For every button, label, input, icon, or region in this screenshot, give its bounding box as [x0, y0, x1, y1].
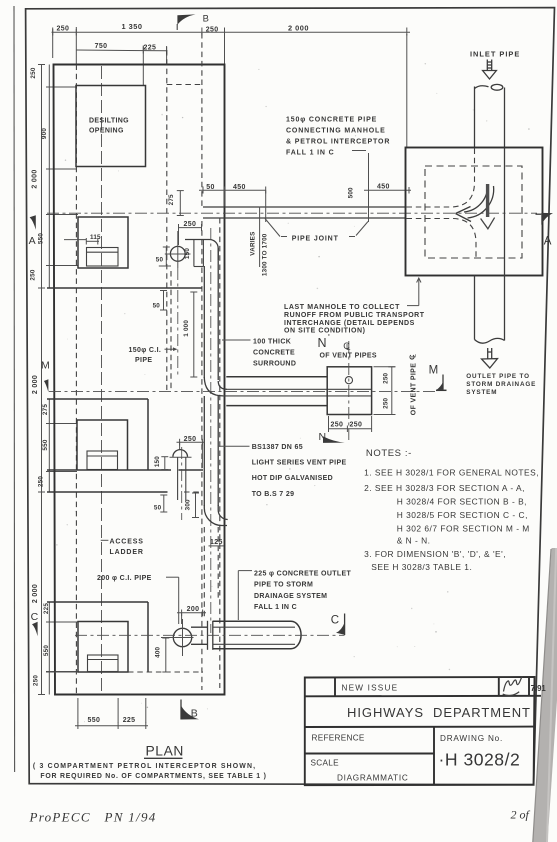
svg-text:ON SITE CONDITION): ON SITE CONDITION): [284, 328, 365, 335]
svg-text:DRAINAGE SYSTEM: DRAINAGE SYSTEM: [254, 593, 327, 600]
outlet pipe note: [466, 373, 536, 396]
plan caption: [33, 763, 267, 780]
svg-text:LADDER: LADDER: [110, 549, 144, 556]
duct dashed continuation below elbow: [204, 527, 218, 618]
opening compartment 2: [77, 420, 128, 470]
svg-text:250: 250: [38, 476, 45, 487]
svg-text:FOR REQUIRED No. OF COMPARTMEN: FOR REQUIRED No. OF COMPARTMENTS, SEE TA…: [40, 773, 266, 780]
svg-text:250: 250: [331, 421, 344, 428]
section flag A left: [29, 215, 36, 247]
svg-text:550: 550: [42, 439, 49, 450]
dip fitting crosshair: [165, 253, 191, 255]
scan speckle: [56, 63, 529, 722]
hidden dash x171: [170, 271, 172, 390]
150 dia CI pipe label: [129, 347, 178, 364]
vent pipe vertical run left line: [203, 266, 205, 506]
dim 250/250 below surround: [329, 416, 372, 432]
compartment 2 top wall y399: [47, 398, 148, 400]
dashed lintel y84.5: [167, 84, 202, 86]
svg-text:900: 900: [41, 128, 48, 139]
dim 250/250 right of surround: [374, 367, 396, 415]
svg-text:250: 250: [184, 221, 197, 228]
manhole outlet channel right line: [504, 148, 506, 276]
page left edge line: [13, 6, 16, 772]
concrete surround box: [327, 367, 371, 415]
svg-text:2 of: 2 of: [511, 808, 531, 822]
svg-text:SURROUND: SURROUND: [253, 360, 296, 367]
hidden wall edge dashed x76: [75, 65, 77, 695]
pipe joint label: [265, 219, 368, 243]
top dimension line 250 / 1350 / 250 / 2000: [52, 27, 411, 36]
svg-text:OPENING: OPENING: [89, 128, 124, 135]
top dim extension lines: [53, 29, 407, 148]
dim 150 left of dome: [161, 457, 168, 470]
N flag bottom: [319, 431, 345, 443]
outlet sump circle: [173, 628, 191, 646]
compartment 2 side wall x148: [147, 399, 149, 470]
dim 275 wall: [177, 191, 184, 216]
200 dia CI pipe label: [97, 575, 179, 624]
compartment 3 side wall x148: [147, 602, 149, 672]
vent pipe centreline chain x210.5: [210, 228, 212, 633]
svg-text:LIGHT SERIES VENT PIPE: LIGHT SERIES VENT PIPE: [252, 459, 347, 466]
fall leader from note: [352, 150, 366, 152]
svg-text:CONCRETE: CONCRETE: [253, 349, 295, 356]
svg-text:OUTLET PIPE TO: OUTLET PIPE TO: [466, 373, 530, 380]
svg-text:( 3 COMPARTMENT PETROL INTERCE: ( 3 COMPARTMENT PETROL INTERCEPTOR SHOWN…: [33, 763, 256, 770]
bench compartment 2: [87, 451, 118, 470]
svg-text:B: B: [203, 13, 210, 24]
svg-text:NEW ISSUE: NEW ISSUE: [342, 684, 399, 693]
section line N-N chain: [348, 341, 350, 440]
svg-text:PIPE: PIPE: [135, 357, 152, 364]
svg-text:DESILTING: DESILTING: [89, 118, 129, 125]
svg-text:STORM DRAINAGE: STORM DRAINAGE: [466, 381, 536, 388]
svg-text:550: 550: [38, 233, 45, 244]
section flag A right: [536, 213, 554, 248]
manhole outlet pipe below: [475, 276, 505, 344]
section flag C left: [31, 611, 39, 636]
svg-text:2. SEE H 3028/3 FOR SECTION A: 2. SEE H 3028/3 FOR SECTION A - A,: [364, 483, 525, 493]
dim 400 outlet: [162, 638, 169, 672]
compartment 3 top wall y602: [47, 601, 148, 603]
svg-text:SCALE: SCALE: [311, 758, 340, 767]
svg-text:PIPE JOINT: PIPE JOINT: [292, 236, 339, 243]
svg-text:2 000: 2 000: [288, 24, 309, 33]
hidden line dashed x166.8: [166, 50, 168, 390]
svg-text:NOTES :-: NOTES :-: [366, 448, 412, 459]
hidden line dashed x201.9 lower: [201, 221, 203, 690]
svg-text:REFERENCE: REFERENCE: [312, 734, 365, 743]
svg-text:250: 250: [57, 26, 70, 33]
svg-text:FALL 1 IN C: FALL 1 IN C: [286, 150, 335, 157]
svg-text:HOT DIP GALVANISED: HOT DIP GALVANISED: [252, 475, 333, 482]
svg-text:550: 550: [88, 717, 101, 724]
svg-text:1. SEE H 3028/1 FOR GENERAL NO: 1. SEE H 3028/1 FOR GENERAL NOTES,: [364, 467, 539, 477]
svg-text:250: 250: [382, 397, 389, 408]
svg-text:225: 225: [43, 603, 50, 614]
bench compartment 3: [88, 655, 119, 672]
dim 50 / 450 near interceptor: [199, 187, 266, 223]
svg-text:450: 450: [233, 184, 246, 191]
bottom dim 550 / 225: [75, 698, 148, 729]
svg-text:250: 250: [206, 26, 219, 33]
svg-text:125: 125: [210, 539, 223, 546]
pipe joint tick 1: [259, 207, 261, 268]
vent branch pipe horizontal pair: [227, 388, 372, 390]
interceptor outer wall: [54, 65, 225, 695]
svg-text:H 3028/4 FOR SECTION B - B,: H 3028/4 FOR SECTION B - B,: [397, 497, 527, 507]
svg-text:550: 550: [43, 645, 50, 656]
pipe joint tick 2 / fall leader: [368, 153, 370, 222]
inlet pipe cylinder: [475, 84, 505, 147]
title block outline: [305, 677, 541, 785]
svg-text:100 THICK: 100 THICK: [253, 338, 291, 345]
svg-text:LAST MANHOLE TO COLLECT: LAST MANHOLE TO COLLECT: [284, 304, 400, 311]
svg-text:2 000: 2 000: [32, 169, 39, 188]
svg-text:50: 50: [153, 303, 161, 310]
svg-text:500: 500: [347, 187, 354, 198]
extension line y672: [46, 671, 78, 673]
svg-text:SYSTEM: SYSTEM: [466, 389, 497, 396]
svg-text:450: 450: [377, 184, 390, 191]
svg-text:7/91: 7/91: [531, 684, 547, 693]
hidden line dashed x201.9 upper: [201, 33, 203, 207]
manhole channel upper curve: [407, 149, 475, 208]
svg-text:L: L: [346, 343, 351, 352]
vent elbow bottom: [204, 505, 227, 526]
svg-text:INLET PIPE: INLET PIPE: [470, 50, 520, 59]
svg-text:250: 250: [350, 421, 363, 428]
dim 50 left of dip circle: [159, 247, 171, 266]
inlet flow arrow: [483, 60, 497, 80]
svg-text:A: A: [29, 235, 36, 247]
elbow from connecting pipe down: [185, 240, 218, 261]
svg-text:225: 225: [123, 717, 136, 724]
svg-text:VARIES: VARIES: [250, 232, 257, 256]
svg-text:DRAWING No.: DRAWING No.: [440, 734, 503, 743]
svg-text:250: 250: [30, 67, 37, 78]
svg-text:PLAN: PLAN: [146, 744, 184, 759]
svg-text:150φ C.I.: 150φ C.I.: [129, 347, 162, 354]
svg-text:225 φ CONCRETE OUTLET: 225 φ CONCRETE OUTLET: [254, 570, 352, 577]
svg-text:250: 250: [184, 436, 197, 443]
outlet sump crosshair: [161, 637, 194, 639]
svg-text:250: 250: [382, 372, 389, 383]
left outer dim line (overall 2000 chain): [38, 65, 45, 695]
access ladder label: [101, 539, 144, 556]
svg-text:C: C: [31, 611, 39, 623]
vent dome base ticks: [170, 456, 192, 458]
svg-text:150φ CONCRETE PIPE: 150φ CONCRETE PIPE: [286, 117, 377, 124]
svg-text:TO B.S 7 29: TO B.S 7 29: [252, 491, 295, 498]
bench compartment 1: [87, 248, 119, 267]
curved flow arrow in manhole: [456, 184, 494, 222]
svg-text:300: 300: [184, 499, 191, 510]
svg-text:3. FOR DIMENSION 'B', 'D', & ': 3. FOR DIMENSION 'B', 'D', & 'E',: [364, 549, 506, 559]
BS1387 vent pipe note: [218, 444, 347, 498]
svg-text:C: C: [331, 614, 339, 626]
dim 300: [192, 493, 199, 518]
svg-text:M: M: [429, 365, 439, 377]
section line C-C chain: [75, 634, 345, 636]
svg-text:250: 250: [30, 269, 37, 280]
svg-text:2 000: 2 000: [32, 375, 39, 394]
svg-text:FALL 1 IN C: FALL 1 IN C: [254, 604, 297, 611]
vent branch verticals below dome: [178, 457, 186, 500]
dim 250 above vent dome: [177, 439, 205, 468]
svg-text:OF VENT PIPES: OF VENT PIPES: [320, 353, 377, 360]
outlet pipe inner lines: [213, 627, 295, 644]
svg-text:50: 50: [154, 504, 162, 511]
svg-text:ACCESS: ACCESS: [110, 539, 144, 546]
svg-text:PIPE TO STORM: PIPE TO STORM: [254, 582, 313, 589]
section flag B bottom: [181, 700, 199, 720]
top dimension line 750 / 225: [76, 46, 167, 86]
hidden wall dashed y672: [128, 671, 203, 673]
section line A-A chain: [47, 212, 537, 214]
svg-text:275: 275: [168, 194, 175, 205]
inlet dip fitting circle compartment 1: [170, 246, 185, 261]
dim 250 drop pipe: [179, 224, 202, 245]
wall line y288: [47, 287, 202, 289]
centre line of openings x101.5: [101, 66, 103, 694]
svg-text:400: 400: [154, 646, 161, 657]
svg-text:DIAGRAMMATIC: DIAGRAMMATIC: [337, 774, 408, 783]
vent pipe dome cap: [173, 450, 188, 457]
manhole dashed inner square: [425, 166, 522, 258]
centreline symbol near N: [343, 341, 351, 352]
svg-text:225: 225: [144, 45, 157, 52]
svg-text:CONNECTING MANHOLE: CONNECTING MANHOLE: [286, 128, 386, 135]
section flag M left: [41, 360, 50, 393]
dip centreline dashed below circle: [177, 268, 179, 378]
manhole channel lower curve: [407, 219, 477, 258]
svg-text:250: 250: [33, 675, 40, 686]
straight flow arrow in manhole: [481, 184, 495, 229]
vent branch centreline: [181, 447, 183, 520]
svg-text:150: 150: [154, 456, 161, 467]
compartment 2 bottom line y470: [47, 469, 171, 471]
plan title: [144, 744, 184, 759]
svg-text:SEE H 3028/3 TABLE 1.: SEE H 3028/3 TABLE 1.: [371, 562, 472, 572]
svg-text:RUNOFF FROM PUBLIC TRANSPORT: RUNOFF FROM PUBLIC TRANSPORT: [284, 312, 425, 319]
svg-text:200 φ C.I. PIPE: 200 φ C.I. PIPE: [97, 575, 152, 582]
svg-text:H 302 6/7 FOR SECTION M - M: H 302 6/7 FOR SECTION M - M: [397, 523, 530, 533]
dim 450 manhole: [364, 187, 411, 194]
svg-text:1 000: 1 000: [183, 320, 190, 337]
outlet pipe lines from sump: [191, 627, 208, 644]
centreline symbol rotated: [408, 354, 418, 360]
vent pipe in plan circle: [345, 377, 352, 384]
svg-text:B: B: [191, 707, 198, 719]
100 thick concrete surround label: [222, 338, 296, 367]
outlet flow arrow: [482, 348, 498, 368]
concrete connecting pipe plan lines y207/y218: [203, 206, 406, 208]
svg-text:275: 275: [42, 404, 49, 415]
left inner dim chain line: [46, 65, 78, 695]
section flag B top: [177, 13, 209, 30]
concrete pipe note: [286, 117, 390, 157]
section flag C right: [331, 614, 345, 636]
inlet sump box compartment 1: [78, 217, 128, 268]
svg-text:INTERCHANGE (DETAIL DEPENDS: INTERCHANGE (DETAIL DEPENDS: [284, 320, 415, 327]
svg-text:200: 200: [187, 606, 200, 613]
vent pipe vertical run right line: [217, 248, 219, 506]
dim 50 below wall y288: [160, 291, 167, 311]
notes block: [364, 448, 539, 572]
manhole box: [406, 148, 543, 276]
svg-text:2 000: 2 000: [32, 584, 39, 603]
svg-text:HIGHWAYS DEPARTMENT: HIGHWAYS DEPARTMENT: [347, 705, 531, 720]
svg-text:50: 50: [156, 257, 164, 264]
initials handwritten: [503, 677, 523, 696]
225 concrete outlet pipe note: [238, 570, 351, 620]
svg-text:& N - N.: & N - N.: [397, 536, 431, 546]
desilting opening: [76, 86, 146, 167]
section line M-M chain: [49, 391, 437, 393]
svg-text:A: A: [544, 235, 552, 247]
svg-text:& PETROL INTERCEPTOR: & PETROL INTERCEPTOR: [286, 139, 390, 146]
svg-text:1300 TO 1700: 1300 TO 1700: [261, 233, 268, 276]
dim 50 below wall y492: [160, 495, 167, 512]
concrete surround stub: [226, 376, 327, 378]
wall line y492: [47, 491, 168, 493]
last manhole note: [284, 278, 425, 335]
svg-text:BS1387 DN 65: BS1387 DN 65: [252, 444, 303, 451]
svg-text:H 3028/5 FOR SECTION C - C,: H 3028/5 FOR SECTION C - C,: [397, 510, 528, 520]
svg-text:750: 750: [95, 43, 108, 50]
svg-text:·H 3028/2: ·H 3028/2: [439, 749, 521, 769]
svg-text:N: N: [318, 336, 327, 350]
hidden line dashed x219.8: [219, 218, 221, 688]
opening compartment 3: [78, 622, 128, 673]
outlet pipe socket verticals: [208, 621, 213, 650]
drop pipe stub verticals: [194, 240, 204, 267]
scan shadow band along right page edge: [533, 548, 557, 842]
svg-text:1 350: 1 350: [122, 22, 143, 31]
svg-text:M: M: [41, 360, 50, 372]
dim 115 sump: [64, 234, 101, 245]
N flag top: [318, 331, 331, 350]
svg-text:L: L: [411, 354, 418, 358]
svg-text:115: 115: [90, 234, 101, 241]
svg-text:ProPECC PN 1/94: ProPECC PN 1/94: [29, 810, 157, 825]
svg-text:50: 50: [206, 184, 215, 191]
dim 1000 vent drop: [190, 292, 197, 377]
svg-text:150: 150: [184, 248, 191, 259]
outlet concrete pipe cylinder: [213, 621, 301, 648]
dim 200 outlet: [177, 610, 206, 625]
svg-text:OF VENT PIPE: OF VENT PIPE: [410, 363, 417, 415]
vent tee fillet arcs: [204, 377, 223, 396]
section flag M right: [429, 365, 447, 391]
dim 125: [209, 539, 225, 546]
